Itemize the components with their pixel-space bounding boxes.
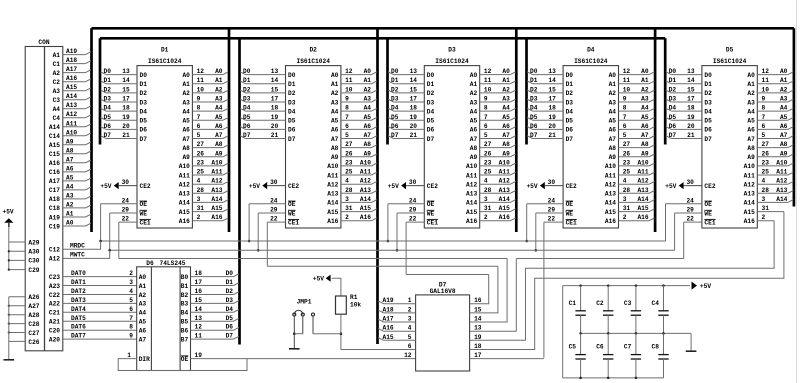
svg-text:D3: D3: [391, 96, 399, 103]
svg-text:9: 9: [762, 96, 766, 103]
svg-text:C5: C5: [569, 344, 577, 351]
svg-text:A15: A15: [327, 209, 338, 216]
svg-text:D4: D4: [391, 105, 399, 112]
svg-text:A0: A0: [66, 220, 74, 227]
svg-text:A13: A13: [776, 187, 787, 194]
svg-text:D4: D4: [140, 108, 148, 115]
svg-text:1: 1: [408, 297, 412, 304]
svg-text:27: 27: [623, 141, 631, 148]
svg-text:A27: A27: [28, 303, 39, 310]
svg-text:A6: A6: [66, 165, 74, 172]
svg-text:+5V: +5V: [388, 183, 399, 190]
svg-text:6: 6: [623, 123, 627, 130]
svg-text:21: 21: [122, 132, 130, 139]
svg-text:A11: A11: [66, 120, 77, 127]
svg-text:A4: A4: [641, 105, 649, 112]
svg-text:D4: D4: [288, 108, 296, 115]
svg-text:A9: A9: [66, 138, 74, 145]
svg-text:D2: D2: [530, 86, 538, 93]
svg-text:D3: D3: [140, 99, 148, 106]
svg-text:+5V: +5V: [665, 183, 676, 190]
svg-text:A19: A19: [49, 214, 60, 221]
svg-text:A12: A12: [776, 178, 787, 185]
svg-text:A5: A5: [182, 118, 190, 125]
svg-text:A0: A0: [364, 68, 372, 75]
svg-text:A14: A14: [211, 196, 222, 203]
svg-text:26: 26: [197, 150, 205, 157]
svg-text:28: 28: [484, 187, 492, 194]
svg-text:A2: A2: [364, 86, 372, 93]
svg-text:C17: C17: [49, 187, 60, 194]
svg-text:A4: A4: [66, 183, 74, 190]
svg-text:D2: D2: [391, 86, 399, 93]
svg-text:D4: D4: [104, 105, 112, 112]
svg-text:A8: A8: [364, 141, 372, 148]
svg-text:CE2: CE2: [704, 183, 715, 190]
svg-text:D0: D0: [243, 68, 251, 75]
svg-text:A12: A12: [49, 256, 60, 263]
svg-text:OE: OE: [181, 356, 189, 363]
svg-text:D3: D3: [288, 99, 296, 106]
svg-text:D2: D2: [669, 86, 677, 93]
svg-text:A6: A6: [215, 123, 223, 130]
svg-text:21: 21: [548, 132, 556, 139]
svg-text:D2: D2: [704, 90, 712, 97]
svg-text:A10: A10: [605, 163, 616, 170]
svg-text:D7: D7: [669, 132, 677, 139]
svg-text:A3: A3: [139, 301, 147, 308]
svg-text:A16: A16: [179, 218, 190, 225]
svg-text:23: 23: [345, 159, 353, 166]
svg-text:D1: D1: [104, 77, 112, 84]
svg-text:9: 9: [484, 96, 488, 103]
svg-text:DAT3: DAT3: [71, 297, 86, 304]
svg-text:D7: D7: [530, 132, 538, 139]
svg-text:A7: A7: [470, 136, 478, 143]
svg-text:A6: A6: [609, 127, 617, 134]
svg-text:A9: A9: [470, 154, 478, 161]
svg-text:A13: A13: [744, 191, 755, 198]
svg-text:D6: D6: [427, 127, 435, 134]
svg-text:A11: A11: [637, 169, 648, 176]
svg-text:C4: C4: [53, 115, 61, 122]
svg-text:A12: A12: [744, 182, 755, 189]
svg-text:A16: A16: [605, 218, 616, 225]
svg-text:14: 14: [687, 77, 695, 84]
svg-text:A3: A3: [331, 99, 339, 106]
svg-text:21: 21: [687, 132, 695, 139]
svg-text:A14: A14: [49, 124, 60, 131]
svg-text:D5: D5: [243, 114, 251, 121]
svg-text:D7: D7: [243, 132, 251, 139]
svg-text:CE1: CE1: [288, 219, 299, 226]
svg-text:26: 26: [623, 150, 631, 157]
svg-text:9: 9: [129, 333, 133, 340]
svg-text:D5: D5: [726, 47, 734, 54]
svg-text:A1: A1: [139, 283, 147, 290]
svg-text:D1: D1: [391, 77, 399, 84]
svg-text:A28: A28: [28, 312, 39, 319]
svg-text:A8: A8: [215, 141, 223, 148]
svg-text:8: 8: [129, 324, 133, 331]
svg-text:WE: WE: [140, 210, 148, 217]
svg-text:11: 11: [195, 333, 203, 340]
svg-text:D6: D6: [243, 123, 251, 130]
svg-text:A6: A6: [139, 328, 147, 335]
svg-text:A14: A14: [776, 196, 787, 203]
svg-text:8: 8: [762, 105, 766, 112]
svg-text:A11: A11: [211, 169, 222, 176]
svg-text:A1: A1: [182, 81, 190, 88]
svg-text:+5V: +5V: [526, 183, 537, 190]
svg-text:C1: C1: [53, 61, 61, 68]
svg-text:A8: A8: [609, 145, 617, 152]
svg-text:4: 4: [623, 178, 627, 185]
svg-text:A3: A3: [609, 99, 617, 106]
svg-text:11: 11: [762, 77, 770, 84]
svg-text:A16: A16: [49, 160, 60, 167]
svg-text:DAT5: DAT5: [71, 315, 86, 322]
svg-text:A15: A15: [211, 205, 222, 212]
svg-text:A11: A11: [744, 172, 755, 179]
svg-text:A2: A2: [53, 70, 61, 77]
svg-text:6: 6: [484, 123, 488, 130]
svg-text:6: 6: [408, 343, 412, 350]
svg-text:A14: A14: [499, 196, 510, 203]
svg-text:C3: C3: [53, 97, 61, 104]
svg-text:15: 15: [687, 86, 695, 93]
svg-text:A1: A1: [215, 77, 223, 84]
svg-text:D2: D2: [226, 288, 234, 295]
svg-text:10: 10: [197, 86, 205, 93]
svg-text:8: 8: [197, 105, 201, 112]
svg-text:+5V: +5V: [100, 183, 111, 190]
svg-text:A14: A14: [179, 200, 190, 207]
svg-text:D6: D6: [140, 127, 148, 134]
svg-text:A14: A14: [605, 200, 616, 207]
svg-text:28: 28: [762, 187, 770, 194]
svg-text:A11: A11: [776, 169, 787, 176]
svg-text:A12: A12: [360, 178, 371, 185]
svg-text:A21: A21: [49, 319, 60, 326]
svg-text:A7: A7: [747, 136, 755, 143]
svg-text:DAT1: DAT1: [71, 279, 86, 286]
svg-text:CE1: CE1: [140, 219, 151, 226]
svg-text:23: 23: [197, 159, 205, 166]
svg-text:MRDC: MRDC: [70, 242, 85, 249]
svg-text:OE: OE: [288, 201, 296, 208]
svg-text:A4: A4: [364, 105, 372, 112]
svg-text:CE1: CE1: [427, 219, 438, 226]
svg-text:A14: A14: [66, 93, 77, 100]
svg-text:A4: A4: [470, 108, 478, 115]
svg-text:D5: D5: [427, 118, 435, 125]
svg-text:A2: A2: [641, 86, 649, 93]
svg-text:A13: A13: [637, 187, 648, 194]
svg-text:A6: A6: [331, 127, 339, 134]
svg-text:21: 21: [271, 132, 279, 139]
svg-text:D6: D6: [391, 123, 399, 130]
svg-text:R1: R1: [350, 294, 358, 301]
svg-text:D4: D4: [427, 108, 435, 115]
svg-text:25: 25: [762, 169, 770, 176]
svg-text:A0: A0: [502, 68, 510, 75]
svg-text:D6: D6: [669, 123, 677, 130]
svg-text:3: 3: [129, 279, 133, 286]
svg-text:A3: A3: [215, 96, 223, 103]
svg-text:D0: D0: [530, 68, 538, 75]
svg-text:6: 6: [129, 306, 133, 313]
svg-text:D0: D0: [104, 68, 112, 75]
svg-text:A10: A10: [776, 159, 787, 166]
svg-text:A5: A5: [502, 114, 510, 121]
svg-text:A7: A7: [609, 136, 617, 143]
svg-text:A12: A12: [327, 182, 338, 189]
svg-text:6: 6: [762, 123, 766, 130]
svg-text:25: 25: [345, 169, 353, 176]
svg-text:A7: A7: [331, 136, 339, 143]
svg-text:A12: A12: [179, 182, 190, 189]
svg-text:14: 14: [548, 77, 556, 84]
svg-text:29: 29: [686, 207, 694, 214]
svg-text:14: 14: [474, 316, 482, 323]
svg-text:22: 22: [686, 216, 694, 223]
svg-text:14: 14: [122, 77, 130, 84]
svg-text:A14: A14: [327, 200, 338, 207]
svg-text:DAT6: DAT6: [71, 324, 86, 331]
svg-text:A8: A8: [66, 147, 74, 154]
svg-text:5: 5: [197, 132, 201, 139]
svg-text:D1: D1: [226, 279, 234, 286]
svg-text:A13: A13: [179, 191, 190, 198]
svg-text:A11: A11: [360, 169, 371, 176]
svg-text:10: 10: [762, 86, 770, 93]
svg-text:CE1: CE1: [566, 219, 577, 226]
svg-text:20: 20: [122, 123, 130, 130]
svg-text:A11: A11: [179, 172, 190, 179]
svg-text:D0: D0: [391, 68, 399, 75]
svg-text:27: 27: [762, 141, 770, 148]
svg-text:14: 14: [271, 77, 279, 84]
svg-text:25: 25: [623, 169, 631, 176]
svg-text:B0: B0: [181, 274, 189, 281]
svg-text:A3: A3: [641, 96, 649, 103]
svg-text:14: 14: [410, 77, 418, 84]
svg-text:A9: A9: [331, 154, 339, 161]
svg-text:D2: D2: [288, 90, 296, 97]
svg-text:A15: A15: [383, 334, 394, 341]
svg-text:13: 13: [548, 68, 556, 75]
svg-text:OE: OE: [566, 201, 574, 208]
svg-text:D5: D5: [530, 114, 538, 121]
svg-text:A3: A3: [53, 88, 61, 95]
svg-text:4: 4: [762, 178, 766, 185]
svg-text:CE1: CE1: [704, 219, 715, 226]
svg-text:2: 2: [345, 214, 349, 221]
svg-text:DAT7: DAT7: [71, 333, 86, 340]
svg-text:19: 19: [410, 114, 418, 121]
svg-text:A0: A0: [470, 72, 478, 79]
svg-text:3: 3: [762, 196, 766, 203]
svg-text:A1: A1: [470, 81, 478, 88]
svg-text:A4: A4: [139, 310, 147, 317]
svg-text:2: 2: [408, 306, 412, 313]
svg-text:D5: D5: [566, 118, 574, 125]
svg-text:12: 12: [762, 68, 770, 75]
svg-text:A0: A0: [215, 68, 223, 75]
svg-text:C8: C8: [652, 344, 660, 351]
svg-text:12: 12: [197, 68, 205, 75]
svg-text:A1: A1: [747, 81, 755, 88]
svg-text:D7: D7: [391, 132, 399, 139]
svg-text:9: 9: [623, 96, 627, 103]
svg-text:C14: C14: [49, 133, 60, 140]
svg-text:JMP1: JMP1: [297, 299, 312, 306]
svg-text:D1: D1: [288, 81, 296, 88]
svg-text:18: 18: [195, 270, 203, 277]
svg-text:WE: WE: [288, 210, 296, 217]
svg-text:OE: OE: [704, 201, 712, 208]
svg-text:A1: A1: [364, 77, 372, 84]
svg-text:A4: A4: [182, 108, 190, 115]
svg-text:A13: A13: [327, 191, 338, 198]
svg-text:A7: A7: [641, 132, 649, 139]
svg-text:B5: B5: [181, 319, 189, 326]
svg-text:A4: A4: [502, 105, 510, 112]
svg-text:A16: A16: [499, 214, 510, 221]
svg-text:DAT4: DAT4: [71, 306, 86, 313]
svg-text:2: 2: [762, 214, 766, 221]
svg-text:16: 16: [474, 297, 482, 304]
svg-text:D1: D1: [566, 81, 574, 88]
svg-text:DAT0: DAT0: [71, 270, 86, 277]
svg-text:C2: C2: [596, 300, 604, 307]
svg-text:74LS245: 74LS245: [160, 260, 186, 267]
svg-text:A1: A1: [66, 211, 74, 218]
svg-text:20: 20: [410, 123, 418, 130]
svg-text:DIR: DIR: [139, 356, 150, 363]
svg-text:A1: A1: [331, 81, 339, 88]
svg-text:A0: A0: [139, 274, 147, 281]
svg-text:5: 5: [345, 132, 349, 139]
svg-text:D5: D5: [669, 114, 677, 121]
svg-text:A15: A15: [360, 205, 371, 212]
svg-text:A2: A2: [502, 86, 510, 93]
svg-text:12: 12: [195, 324, 203, 331]
svg-text:A30: A30: [28, 249, 39, 256]
svg-text:D4: D4: [530, 105, 538, 112]
svg-text:19: 19: [195, 352, 203, 359]
svg-text:19: 19: [548, 114, 556, 121]
svg-text:D6: D6: [704, 127, 712, 134]
svg-text:C6: C6: [596, 344, 604, 351]
svg-text:A0: A0: [780, 68, 788, 75]
svg-text:15: 15: [474, 306, 482, 313]
svg-text:24: 24: [270, 197, 278, 204]
svg-text:A26: A26: [28, 294, 39, 301]
svg-text:19: 19: [271, 114, 279, 121]
svg-text:5: 5: [762, 132, 766, 139]
svg-text:D2: D2: [140, 90, 148, 97]
svg-text:D1: D1: [140, 81, 148, 88]
svg-text:A10: A10: [637, 159, 648, 166]
svg-text:D3: D3: [226, 297, 234, 304]
svg-text:A8: A8: [780, 141, 788, 148]
svg-text:6: 6: [345, 123, 349, 130]
svg-text:A1: A1: [502, 77, 510, 84]
svg-text:29: 29: [548, 207, 556, 214]
svg-text:21: 21: [410, 132, 418, 139]
svg-text:2: 2: [484, 214, 488, 221]
svg-text:A3: A3: [364, 96, 372, 103]
svg-text:D5: D5: [704, 118, 712, 125]
svg-text:18: 18: [122, 105, 130, 112]
svg-text:D4: D4: [226, 306, 234, 313]
svg-text:18: 18: [548, 105, 556, 112]
svg-text:A3: A3: [780, 96, 788, 103]
svg-text:A0: A0: [331, 72, 339, 79]
svg-text:D2: D2: [104, 86, 112, 93]
svg-text:A5: A5: [215, 114, 223, 121]
svg-text:A6: A6: [641, 123, 649, 130]
svg-text:D4: D4: [566, 108, 574, 115]
svg-text:A6: A6: [364, 123, 372, 130]
svg-text:A15: A15: [179, 209, 190, 216]
svg-text:A1: A1: [641, 77, 649, 84]
svg-text:D6: D6: [104, 123, 112, 130]
svg-text:30: 30: [122, 179, 130, 186]
svg-text:17: 17: [195, 279, 203, 286]
svg-text:23: 23: [623, 159, 631, 166]
svg-text:D4: D4: [669, 105, 677, 112]
svg-text:20: 20: [687, 123, 695, 130]
svg-text:2: 2: [623, 214, 627, 221]
svg-text:A10: A10: [66, 129, 77, 136]
svg-text:A8: A8: [331, 145, 339, 152]
svg-text:A1: A1: [53, 52, 61, 59]
svg-text:A18: A18: [383, 306, 394, 313]
svg-text:A5: A5: [609, 118, 617, 125]
svg-text:WE: WE: [427, 210, 435, 217]
svg-text:IS61C1024: IS61C1024: [296, 58, 330, 65]
svg-text:B7: B7: [181, 336, 189, 343]
svg-text:22: 22: [270, 216, 278, 223]
svg-text:A9: A9: [215, 150, 223, 157]
svg-text:A6: A6: [502, 123, 510, 130]
svg-text:26: 26: [484, 150, 492, 157]
svg-text:23: 23: [762, 159, 770, 166]
svg-text:C20: C20: [49, 328, 60, 335]
svg-text:A15: A15: [637, 205, 648, 212]
svg-text:A20: A20: [49, 336, 60, 343]
svg-text:16: 16: [195, 288, 203, 295]
svg-text:4: 4: [345, 178, 349, 185]
svg-text:A0: A0: [609, 72, 617, 79]
svg-text:D7: D7: [104, 132, 112, 139]
svg-text:A11: A11: [466, 172, 477, 179]
svg-text:D5: D5: [104, 114, 112, 121]
svg-text:C27: C27: [28, 330, 39, 337]
svg-text:14: 14: [195, 306, 203, 313]
svg-text:C29: C29: [28, 267, 39, 274]
svg-text:A7: A7: [215, 132, 223, 139]
svg-text:18: 18: [271, 105, 279, 112]
svg-text:C19: C19: [49, 223, 60, 230]
svg-text:A2: A2: [470, 90, 478, 97]
svg-text:A7: A7: [780, 132, 788, 139]
svg-text:D7: D7: [427, 136, 435, 143]
svg-text:A10: A10: [499, 159, 510, 166]
